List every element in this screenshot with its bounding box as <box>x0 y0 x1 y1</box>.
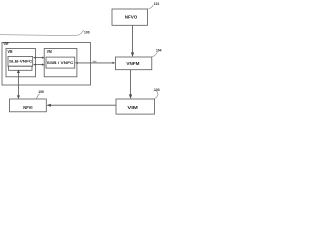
svg-text:VM: VM <box>8 49 13 54</box>
svg-text:101: 101 <box>154 2 160 6</box>
svg-text:VM: VM <box>47 49 52 54</box>
svg-text:105: 105 <box>38 90 44 94</box>
svg-text:SLB-VNFC: SLB-VNFC <box>9 60 33 64</box>
svg-text:NFVO: NFVO <box>125 15 138 20</box>
svg-text:104: 104 <box>156 49 162 53</box>
svg-text:NFVI: NFVI <box>23 105 32 110</box>
svg-text:VNF: VNF <box>3 41 8 46</box>
svg-text:VIM: VIM <box>127 105 138 110</box>
svg-text:SSB / VNFC: SSB / VNFC <box>47 61 74 65</box>
svg-text:100: 100 <box>84 30 90 34</box>
svg-text:VNFM: VNFM <box>126 61 139 66</box>
svg-text:103: 103 <box>154 88 160 92</box>
